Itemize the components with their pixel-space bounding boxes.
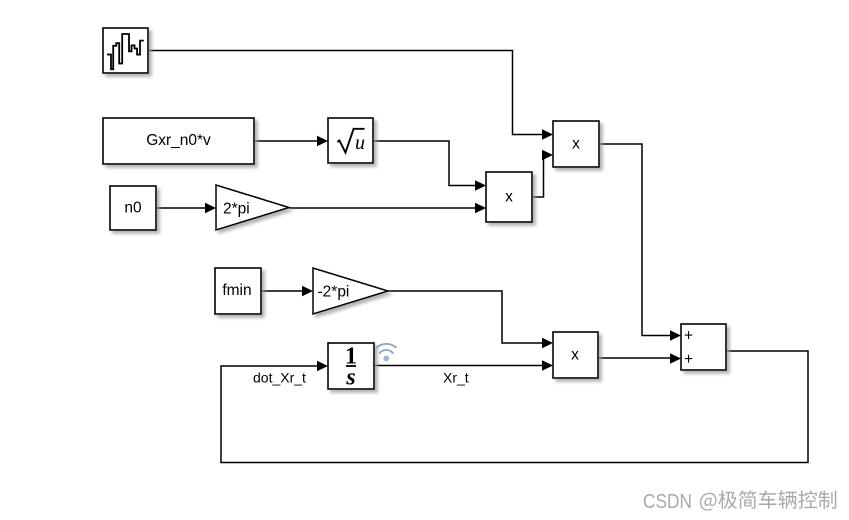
wire gain 2*pi to product U1 input 2: [289, 203, 486, 213]
svg-text:u: u: [355, 132, 365, 154]
wire sqrt block to product U1 input 1: [373, 141, 486, 191]
signal logging wifi badge: [377, 344, 396, 362]
constant block Gxr_n0*v: [103, 118, 254, 164]
wire product U3 to sum input 2: [598, 353, 681, 363]
svg-text:x: x: [572, 136, 580, 153]
svg-text:dot_Xr_t: dot_Xr_t: [253, 370, 306, 386]
product block U3: [553, 332, 598, 378]
svg-text:+: +: [684, 351, 693, 368]
wire gain -2*pi to product U3 input 1: [388, 291, 553, 348]
product block U2: [553, 121, 599, 167]
sum block: [681, 324, 726, 370]
svg-text:CSDN: CSDN: [643, 491, 692, 513]
integrator block 1/s: [328, 343, 374, 391]
wire integrator to product U3 input 2, net Xr_t: [374, 360, 553, 370]
svg-text:+: +: [684, 328, 693, 345]
svg-text:Xr_t: Xr_t: [443, 370, 469, 386]
constant block n0: [110, 186, 156, 230]
wire constant n0 to gain 2*pi: [156, 203, 216, 213]
svg-text:x: x: [505, 189, 513, 206]
wire noise source to product U2 input 1: [148, 51, 553, 140]
watermark CSDN: [643, 490, 836, 513]
wire product U2 to sum input 1: [599, 144, 681, 341]
product block U1: [486, 172, 532, 222]
svg-text:fmin: fmin: [222, 282, 251, 299]
constant block fmin: [215, 268, 261, 314]
svg-text:2*pi: 2*pi: [223, 201, 250, 218]
wire sum feedback loop to integrator input, net dot_Xr_t: [221, 351, 808, 463]
svg-text:n0: n0: [124, 200, 142, 217]
svg-text:x: x: [571, 347, 579, 364]
noise source block: [103, 28, 148, 73]
gain block -2*pi: [313, 268, 388, 314]
svg-text:s: s: [345, 365, 355, 391]
gain block 2*pi: [216, 185, 289, 230]
svg-text:Gxr_n0*v: Gxr_n0*v: [146, 132, 211, 149]
sqrt block: [328, 118, 373, 163]
wire constant fmin to gain -2*pi: [261, 286, 313, 296]
wire constant Gxr_n0*v to sqrt block: [254, 136, 328, 146]
svg-text:-2*pi: -2*pi: [318, 284, 350, 301]
wire product U1 to product U2 input 2: [532, 150, 553, 197]
